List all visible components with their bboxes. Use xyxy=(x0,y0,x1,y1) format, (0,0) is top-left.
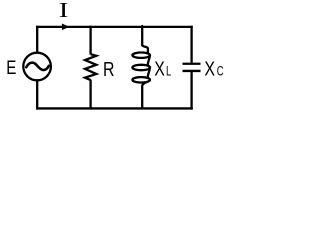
wire: bottom bus from node B to node C xyxy=(36,107,193,109)
wire: capacitor top lead (right side upper) xyxy=(190,26,192,63)
wire: resistor top lead xyxy=(89,26,91,55)
svg-text:X: X xyxy=(204,56,215,79)
svg-text:I: I xyxy=(59,0,69,22)
current arrow I on top bus xyxy=(62,24,69,31)
wire: resistor bottom lead xyxy=(89,80,91,110)
resistor R zigzag xyxy=(85,54,96,80)
svg-text:C: C xyxy=(217,63,224,79)
AC source E: sine wave xyxy=(26,63,49,70)
AC source E: circle xyxy=(23,53,51,81)
svg-text:R: R xyxy=(103,57,114,80)
capacitor XC bottom plate xyxy=(183,70,201,72)
wire: left branch upper lead (node A to source top) xyxy=(36,26,38,54)
wire: top bus from node A to node D xyxy=(36,26,193,28)
wire: left branch lower lead (source bottom to node B) xyxy=(36,80,38,110)
inductor XL coil with leads xyxy=(132,26,150,108)
wire: capacitor bottom lead (right side lower) xyxy=(190,72,192,110)
svg-text:X: X xyxy=(154,57,165,80)
svg-text:E: E xyxy=(6,56,16,78)
capacitor XC top plate xyxy=(183,63,201,65)
svg-text:L: L xyxy=(166,64,172,79)
